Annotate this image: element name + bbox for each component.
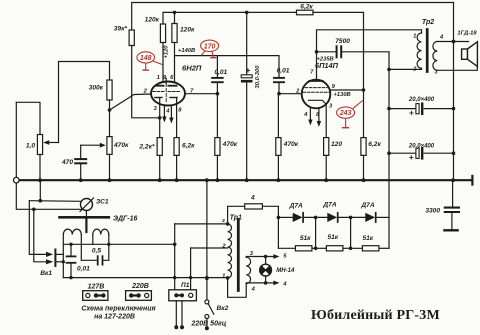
svg-text:220В 50гц: 220В 50гц bbox=[191, 321, 227, 328]
svg-text:470: 470 bbox=[61, 159, 73, 166]
svg-text:470к: 470к bbox=[113, 142, 129, 149]
ground chassis bar bbox=[444, 229, 457, 231]
svg-text:300к: 300к bbox=[89, 85, 104, 92]
svg-text:51к: 51к bbox=[327, 234, 338, 241]
node screen grid junction bbox=[362, 88, 366, 92]
capacitor 20,0x400 no2 plates bbox=[416, 148, 419, 158]
svg-text:Тр1: Тр1 bbox=[230, 214, 242, 221]
wire bottom mains rail y=277.6 bbox=[63, 277, 227, 279]
svg-text:Юбилейный РГ-3М: Юбилейный РГ-3М bbox=[311, 308, 440, 323]
svg-text:+: + bbox=[409, 109, 414, 118]
svg-text:1: 1 bbox=[222, 273, 225, 279]
svg-text:+: + bbox=[246, 66, 251, 75]
wire top feedback rail from 39k to speaker column bbox=[132, 3, 454, 31]
switch Vk2 contacts bbox=[205, 300, 209, 304]
svg-text:120: 120 bbox=[331, 141, 342, 148]
svg-text:220В: 220В bbox=[131, 283, 149, 290]
tube 6N2P cathode bar 2 bbox=[170, 97, 177, 99]
diode D7A no1 bbox=[293, 213, 303, 222]
motor winding left bbox=[63, 229, 81, 234]
svg-text:30,0-300: 30,0-300 bbox=[255, 65, 261, 89]
wire chassis rail junction down to pickup hot line bbox=[39, 180, 41, 201]
capacitor 7500 plates bbox=[336, 46, 338, 57]
capacitor 3300 plates bbox=[445, 207, 459, 209]
svg-text:20,0×400: 20,0×400 bbox=[408, 97, 435, 103]
motor winding right bbox=[93, 229, 109, 234]
heater lead arrows 6N2P bbox=[163, 105, 165, 119]
svg-text:+130В: +130В bbox=[334, 92, 351, 98]
svg-text:3300: 3300 bbox=[425, 207, 440, 214]
capacitor 0,5 loop wires bbox=[81, 244, 96, 260]
wire to connector Vk1 pin 2 bbox=[34, 209, 50, 261]
node mains column to Tr1 pin1 line bbox=[205, 277, 209, 281]
wire Tr2 secondary top to speaker node bbox=[437, 41, 468, 43]
svg-text:+: + bbox=[409, 153, 414, 162]
svg-text:ЗС1: ЗС1 bbox=[96, 199, 109, 206]
node cap row2 right bbox=[452, 151, 456, 155]
lamp MN-14 bbox=[265, 257, 267, 265]
potentiometer 1,0 body bbox=[37, 135, 42, 155]
wire +140V supply rail y=12.4 bbox=[163, 12, 297, 24]
rail end bar bbox=[471, 176, 473, 185]
wire motor inner leads to line y=244.3 bbox=[80, 235, 82, 245]
resistor R 39k body bbox=[129, 30, 134, 46]
node lamp bottom bbox=[264, 281, 268, 285]
red test mark 148 bbox=[137, 52, 163, 70]
svg-text:з: з bbox=[222, 218, 225, 224]
svg-text:243: 243 bbox=[339, 110, 352, 117]
node 51k row junctions bbox=[314, 247, 318, 251]
svg-text:470к: 470к bbox=[222, 141, 238, 148]
svg-text:0,5: 0,5 bbox=[92, 248, 101, 255]
transformer Tr1 primary winding bbox=[228, 224, 232, 278]
capacitor 30,0x300 electrolytic bbox=[246, 12, 248, 76]
svg-text:ЭДГ-16: ЭДГ-16 bbox=[113, 216, 138, 223]
svg-text:Д7А: Д7А bbox=[322, 202, 336, 209]
plug 127V box bbox=[83, 291, 108, 301]
capacitor 0,01 motor plates bbox=[67, 255, 76, 257]
wire cathode lead down to 120 resistor bbox=[325, 104, 327, 137]
wire to connector Vk1 pin 1 bbox=[29, 201, 49, 255]
tube 6N2P grid 1 dashes bbox=[153, 91, 164, 93]
node lamp top bbox=[264, 255, 268, 259]
wire main chassis rail bbox=[16, 179, 472, 181]
svg-text:Д7А: Д7А bbox=[360, 202, 374, 209]
pickup ZS1 circle bbox=[81, 199, 93, 211]
node pickup hot junction bbox=[39, 199, 43, 203]
wire anode signal line y=55.6 to coupling caps bbox=[175, 56, 280, 77]
resistor 470k output grid leak body bbox=[276, 138, 281, 156]
wire diode row bbox=[278, 216, 292, 218]
node P1 right column crossing bbox=[189, 276, 192, 279]
wire screen lead pin 9 bbox=[330, 89, 363, 91]
svg-text:0,01: 0,01 bbox=[277, 68, 290, 75]
node rail junctions bbox=[38, 178, 42, 182]
wire lamp secondary top line bbox=[246, 256, 276, 259]
node cap row1 right bbox=[452, 107, 456, 111]
resistor 6,2k bleeder body bbox=[361, 138, 366, 156]
resistor 51k no3 body bbox=[362, 246, 379, 251]
capacitor 470 plates bbox=[75, 158, 86, 160]
svg-text:МН-14: МН-14 bbox=[276, 268, 295, 274]
svg-text:Д7А: Д7А bbox=[289, 202, 303, 209]
svg-text:6,2к: 6,2к bbox=[368, 141, 381, 148]
svg-text:6,2к: 6,2к bbox=[182, 143, 195, 150]
tube 6N2P grid 2 dashes bbox=[168, 91, 179, 93]
wire mains column from rail to Vk2 bbox=[206, 180, 208, 300]
node Tr1 pin3 bbox=[226, 222, 230, 226]
wire wiper arrow into pot 1,0 bbox=[47, 142, 59, 144]
node lower pickup line junction bbox=[32, 208, 36, 212]
plug 220V box bbox=[126, 291, 152, 301]
svg-text:51к: 51к bbox=[300, 235, 311, 242]
diode D7A no3 bbox=[365, 213, 375, 222]
wire 6P14P anode lead up to output transformer line bbox=[317, 30, 422, 81]
wire P1 right column from Tr1 pin2 bbox=[190, 248, 192, 290]
wire Tr1 bottom U link bbox=[228, 278, 247, 297]
transformer Tr1 core bar bbox=[237, 220, 240, 291]
node B+ to Tr2 pin2 bbox=[387, 68, 391, 72]
wire pin 9 lead bbox=[165, 79, 167, 84]
svg-text:148: 148 bbox=[140, 55, 152, 62]
resistor 2,2k body bbox=[157, 138, 162, 156]
node anode to 7500 tap bbox=[315, 50, 319, 54]
potentiometer 470k no1 body bbox=[107, 137, 112, 155]
capacitor 3300 stem bbox=[452, 180, 454, 207]
wire Vk1 pins to motor circuit bbox=[55, 253, 63, 255]
node Tr1 pin1 junction bbox=[226, 276, 230, 280]
svg-text:470к: 470к bbox=[283, 141, 299, 148]
svg-text:1: 1 bbox=[157, 75, 160, 81]
connector Vk1 socket bar bbox=[54, 250, 56, 267]
diode D7A no2 bbox=[327, 213, 337, 222]
wire P1 left column bbox=[174, 224, 176, 290]
resistor 300k body bbox=[107, 80, 112, 100]
svg-text:1,0: 1,0 bbox=[26, 142, 35, 149]
node output grid junction bbox=[277, 92, 281, 96]
capacitor 0,01 no1 coupling bbox=[216, 56, 218, 78]
motor EDG-16 center stem bbox=[85, 217, 87, 232]
resistor 51k no1 body bbox=[295, 246, 312, 251]
svg-text:Тр2: Тр2 bbox=[422, 19, 434, 26]
svg-text:170: 170 bbox=[204, 43, 216, 50]
wire pot 1,0 top to pickup line bbox=[16, 102, 40, 134]
wire motor left lead down to bottom mains rail bbox=[62, 235, 64, 278]
node 0,01 stem on motor line bbox=[69, 243, 72, 246]
node junction 39k to cathode lead bbox=[158, 116, 162, 120]
wire anode lead pin1 of 6N2P bbox=[162, 43, 164, 86]
wire 470k pot wiper from 470 cap node bbox=[81, 144, 103, 146]
wire 51k equalizing row bbox=[277, 217, 279, 248]
wire ZS1 stem to motor bar bbox=[85, 211, 87, 218]
capacitor 0,5 plates bbox=[97, 256, 99, 264]
node diode row left bbox=[277, 216, 281, 220]
resistor 470k grid2 leak body bbox=[215, 138, 220, 156]
wire pickup hot line y=200.7 bbox=[29, 200, 81, 203]
svg-text:Вк2: Вк2 bbox=[217, 305, 229, 312]
svg-text:7500: 7500 bbox=[335, 38, 350, 45]
resistor 6,2k cathode2 body bbox=[174, 138, 179, 156]
tube 6N2P anode bar 1 bbox=[155, 85, 163, 87]
wire lamp secondary bottom line bbox=[246, 282, 276, 285]
capacitor 0,01 motor stem bbox=[70, 244, 72, 256]
transformer Tr2 core bars bbox=[426, 30, 429, 72]
tube 6P14P cathode line bbox=[309, 100, 327, 104]
capacitor 20,0x400 no1 wires bbox=[389, 108, 416, 110]
svg-text:120к: 120к bbox=[145, 17, 160, 24]
speaker 1GD-18 cone bbox=[468, 42, 478, 67]
wire 39k bottom lead down and over to cathode node bbox=[132, 46, 160, 118]
svg-text:120к: 120к bbox=[180, 27, 195, 34]
svg-text:127В: 127В bbox=[88, 283, 105, 290]
pickup ZS1 needle line bbox=[80, 198, 94, 212]
svg-text:Схема переключения: Схема переключения bbox=[81, 306, 155, 313]
fuse resistor 4 wires bbox=[228, 206, 245, 224]
wire Tr1 pin3 line bbox=[175, 223, 228, 225]
wire anode lead pin6 of 6N2P bbox=[174, 14, 176, 24]
svg-text:П1: П1 bbox=[181, 282, 190, 289]
svg-text:+120: +120 bbox=[164, 45, 170, 59]
motor EDG-16 core bar bbox=[60, 216, 109, 219]
wire P1 mains leads bbox=[175, 301, 177, 326]
resistor 120k no1 body bbox=[160, 24, 165, 43]
svg-text:0,01: 0,01 bbox=[214, 69, 227, 76]
node 30,0x300 cap top tap bbox=[245, 11, 249, 15]
wire grid1 diagonal to tube pin2 bbox=[110, 94, 152, 110]
wire cathode 2 lead down bbox=[176, 98, 178, 138]
red test mark 243 bbox=[337, 101, 363, 128]
svg-text:4: 4 bbox=[250, 195, 255, 202]
wire right column speaker to chassis bbox=[453, 3, 455, 181]
terminal circle input jack on rail bbox=[13, 177, 19, 183]
tube 6N2P anode bar 2 bbox=[168, 85, 176, 87]
node motor right lead bbox=[107, 243, 110, 246]
svg-text:39к*: 39к* bbox=[114, 26, 128, 33]
transformer Tr2 primary winding bbox=[417, 33, 421, 68]
svg-text:Вк1: Вк1 bbox=[40, 270, 52, 277]
svg-text:51к: 51к bbox=[362, 235, 373, 242]
wire Tr1 pin2 line bbox=[191, 247, 228, 249]
wire B+ column x=389 bbox=[388, 52, 390, 218]
switch P1 contacts bbox=[174, 293, 178, 297]
wire 300k bottom to grid node bbox=[109, 100, 111, 137]
node P1 left on motor line bbox=[173, 243, 177, 247]
capacitor 0,01 no2 coupling to output tube bbox=[274, 77, 284, 79]
tube 6P14P anode bar bbox=[309, 80, 322, 82]
red test mark 170 bbox=[201, 40, 219, 58]
wire 0,01 motor bottom to mains rail bbox=[70, 263, 72, 278]
capacitor 20,0x400 no1 plates bbox=[416, 104, 419, 114]
node mains switch column crossing bbox=[205, 276, 208, 279]
node grid1 junction bbox=[108, 108, 112, 112]
wire 3300 to ground bbox=[451, 212, 453, 230]
wire grid line to 6P14P bbox=[279, 93, 302, 95]
svg-text:+140В: +140В bbox=[178, 48, 195, 54]
node diode junctions bbox=[314, 216, 318, 220]
resistor 120 cathode body bbox=[324, 138, 329, 156]
node P1 left column crossing bbox=[173, 276, 176, 279]
svg-text:0,01: 0,01 bbox=[77, 266, 90, 273]
resistor 120k no2 lead and body bbox=[172, 24, 177, 43]
svg-text:на 127-220В: на 127-220В bbox=[94, 314, 135, 321]
fuse resistor 4 body bbox=[245, 204, 263, 209]
resistor 6,2k decoupling horizontal body bbox=[297, 10, 314, 15]
svg-text:2,2к*: 2,2к* bbox=[138, 143, 155, 150]
wire motor feed line y=244.3 to P1 column bbox=[63, 243, 174, 245]
svg-text:6П14П: 6П14П bbox=[315, 61, 339, 70]
wire pin 7 grid lead to coupling node bbox=[185, 93, 217, 95]
svg-text:1: 1 bbox=[413, 34, 416, 40]
capacitor 470 stem bbox=[80, 145, 82, 159]
node grid2 coupling junction bbox=[216, 92, 220, 96]
wire 470k pot bottom bbox=[109, 154, 111, 180]
wire left input column down to pickup bottom bbox=[16, 102, 84, 209]
capacitor 7500 wires bbox=[317, 51, 336, 53]
speaker 1GD-18 body bbox=[462, 49, 468, 59]
wire Tr2 secondary bottom to speaker bbox=[437, 66, 477, 70]
svg-text:6Н2П: 6Н2П bbox=[182, 64, 202, 73]
svg-text:6,2к: 6,2к bbox=[300, 3, 313, 10]
tube 6N2P shield dashes bbox=[165, 84, 167, 104]
transformer Tr1 secondary winding bbox=[246, 257, 250, 283]
node speaker top junction bbox=[452, 40, 456, 44]
svg-text:20,0×400: 20,0×400 bbox=[408, 143, 435, 149]
heater lead arrows 6P14P bbox=[309, 108, 311, 122]
tube 6P14P control grid dashes bbox=[303, 91, 329, 93]
tube 6P14P screen grid dashes bbox=[305, 87, 327, 89]
tube 6P14P envelope bbox=[302, 80, 331, 109]
resistor 51k no2 body bbox=[326, 246, 343, 251]
wire cathode 1 lead down bbox=[159, 98, 161, 138]
svg-text:1ГД-18: 1ГД-18 bbox=[457, 30, 477, 36]
tube 6N2P cathode bar 1 bbox=[155, 97, 162, 99]
resistor 300k top loop to volume wiper bbox=[59, 62, 110, 143]
connector Vk1 arrow contacts bbox=[46, 252, 53, 257]
wire pot 1,0 bottom to chassis rail bbox=[39, 155, 41, 181]
node B+ to filter cap row2 bbox=[387, 151, 391, 155]
wire Tr2 primary bottom to B+ bbox=[389, 68, 422, 69]
switch P1 box bbox=[169, 290, 197, 301]
tube 6N2P envelope bbox=[151, 82, 185, 106]
node B+ to filter cap row1 bbox=[387, 107, 391, 111]
node 120k no2 top bbox=[173, 11, 177, 15]
transformer Tr2 secondary winding bbox=[433, 42, 437, 71]
wire 470 cap bottom to rail bbox=[80, 163, 82, 180]
capacitor 20,0x400 no2 wires bbox=[389, 152, 416, 154]
wire 6,2k to screen column bbox=[313, 12, 364, 137]
